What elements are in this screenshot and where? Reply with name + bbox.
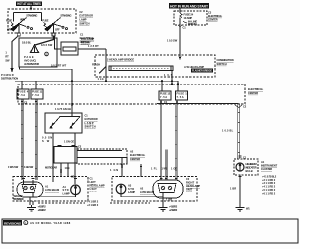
svg-text:HOT IN RUN AND START: HOT IN RUN AND START	[170, 4, 208, 8]
wire from switch to splice	[22, 37, 54, 46]
ground G3 cluster	[236, 205, 251, 211]
connector under fuse box	[179, 25, 187, 29]
svg-text:HOT AT ALL TIMES: HOT AT ALL TIMES	[17, 2, 41, 6]
wire linkage drop C	[140, 164, 142, 177]
svg-text:SWITCH: SWITCH	[79, 21, 89, 25]
svg-text:1/0.5 BL: 1/0.5 BL	[22, 41, 32, 45]
left standing bulb	[71, 175, 81, 195]
fuse F-a in switch	[6, 19, 14, 28]
dimmer switch label	[85, 114, 98, 129]
svg-text:LAMP: LAMP	[128, 190, 135, 194]
left ground hinge label	[14, 194, 24, 201]
wire to instrument cluster	[222, 103, 247, 159]
svg-text:POWER: POWER	[1, 73, 14, 77]
svg-text:1 GE: 1 GE	[171, 167, 177, 171]
svg-text:1 0.75 GN GE: 1 0.75 GN GE	[55, 107, 71, 111]
electrical center dashed housing	[18, 84, 245, 104]
connector C3 fuse panel label	[208, 10, 223, 21]
fuse F11	[31, 81, 43, 99]
svg-text:HEADLAMP: HEADLAMP	[186, 184, 200, 188]
wire aim out 1 GE	[65, 163, 70, 177]
svg-text:EXTERIOR: EXTERIOR	[79, 14, 93, 18]
ground G1 left	[27, 205, 46, 212]
svg-text:+4 1 BR 2: +4 1 BR 2	[87, 200, 99, 204]
svg-text:LEFT: LEFT	[90, 180, 97, 184]
label headlamp flasher text block	[184, 65, 213, 72]
ground G2 right	[159, 205, 178, 212]
power feed plate HOT AT ALL TIMES	[16, 2, 42, 7]
wire dimmer high beam out	[64, 133, 75, 184]
svg-text:FRONT GND: FRONT GND	[14, 197, 24, 201]
ground dashed link left	[38, 200, 99, 207]
svg-text:CENTER: CENTER	[248, 91, 258, 95]
hot in run plate	[169, 3, 209, 8]
svg-text:E: E	[46, 52, 48, 56]
svg-text:7.5A: 7.5A	[32, 93, 39, 97]
left standing lamp label	[63, 185, 70, 196]
svg-text:RIGHT: RIGHT	[186, 180, 195, 184]
svg-text:RT: RT	[5, 55, 9, 59]
wire 1/0.5 RT WT to junction	[20, 63, 73, 81]
svg-text:OFF: OFF	[7, 27, 12, 31]
right headlamp dashed housing	[112, 177, 197, 202]
svg-text:1 WS SW: 1 WS SW	[8, 165, 19, 169]
svg-text:ELECTRICAL: ELECTRICAL	[248, 87, 264, 91]
right headlamp housing bulb	[153, 179, 183, 199]
exterior lamp switch S1 dashed housing	[8, 9, 76, 33]
switch internal bus wire	[14, 13, 42, 22]
wire fuse4 to left headlamp	[8, 99, 23, 180]
svg-text:FLASH: FLASH	[92, 63, 100, 67]
svg-text:SWITCH: SWITCH	[85, 124, 96, 128]
svg-text:1 GE: 1 GE	[65, 166, 70, 170]
svg-text:SW: SW	[42, 139, 50, 143]
svg-text:W2 LEFT: W2 LEFT	[14, 194, 24, 198]
wire aim out left	[60, 163, 62, 177]
svg-text:1 GE SW: 1 GE SW	[24, 165, 34, 169]
wire fuse12 to right headlamp	[151, 103, 161, 180]
svg-text:+2 1 1 RD 2: +2 1 1 RD 2	[262, 178, 276, 182]
left low beam label	[45, 184, 59, 192]
wire fuse1 to right headlamp	[171, 103, 177, 180]
flash switch lever	[92, 63, 107, 74]
wire bridge right end down	[164, 71, 173, 86]
svg-text:FUSE 12: FUSE 12	[160, 92, 171, 96]
wire dimmer low beam out	[42, 133, 53, 182]
svg-text:ALTERNATOR: ALTERNATOR	[24, 62, 39, 66]
label STANDING (left wafer)	[7, 13, 37, 31]
svg-text:CENTER: CENTER	[130, 157, 140, 161]
svg-text:1 0.5 SW: 1 0.5 SW	[167, 39, 178, 43]
combination switch label	[217, 58, 234, 66]
svg-text:CENTER: CENTER	[208, 17, 218, 21]
svg-text:1/0.5 RT WT: 1/0.5 RT WT	[51, 63, 67, 67]
svg-text:FUSE 1: FUSE 1	[177, 92, 188, 96]
svg-text:+2 1 BR 2: +2 1 BR 2	[87, 203, 99, 207]
fuse F24 10A	[180, 13, 197, 27]
svg-text:1 GN: 1 GN	[110, 168, 118, 172]
svg-text:1 0.5: 1 0.5	[164, 73, 173, 77]
svg-text:REVISIONS: REVISIONS	[4, 221, 21, 225]
left headlamp ground link wire	[30, 193, 76, 206]
svg-text:COMBINATION: COMBINATION	[217, 58, 234, 62]
svg-text:RELAY: RELAY	[81, 41, 91, 45]
revisions bar	[2, 219, 298, 243]
svg-text:+6 1 1 RD 2: +6 1 1 RD 2	[262, 191, 276, 195]
switch wafer 2 wiper	[44, 18, 68, 34]
right standing lamp label	[128, 183, 135, 194]
electrical center bottom bus wire	[157, 102, 239, 104]
svg-text:SW: SW	[5, 59, 10, 63]
svg-text:1 FL: 1 FL	[151, 167, 158, 171]
svg-text:7.5A: 7.5A	[18, 93, 25, 97]
svg-text:7.5A: 7.5A	[160, 95, 167, 99]
svg-text:STD: STD	[128, 187, 134, 191]
wire to right headlamp mid	[162, 150, 168, 181]
wire branch to relay K1	[41, 37, 61, 50]
electrical center label	[248, 87, 264, 95]
left headlamp housing bulb	[17, 179, 43, 198]
svg-text:AS OF MODEL YEAR 1988: AS OF MODEL YEAR 1988	[30, 221, 71, 225]
wire to power distribution arrow	[5, 37, 17, 74]
connector exit C at switch bottom right	[52, 33, 55, 36]
wire to dimmer switch	[55, 81, 73, 113]
combination switch dashed housing	[95, 55, 215, 77]
svg-text:1 WS: 1 WS	[162, 167, 168, 171]
svg-text:FUSE 4: FUSE 4	[18, 90, 29, 94]
connector row under left fuses	[21, 100, 37, 104]
fuse box dashed housing (top right)	[174, 8, 207, 25]
svg-text:BULB: BULB	[246, 169, 253, 173]
svg-text:1 LG: 1 LG	[98, 77, 104, 81]
svg-text:1 2.5 RT: 1 2.5 RT	[88, 44, 99, 48]
label STANDING (right wafer)	[55, 13, 72, 31]
wire 1 0.5 SW down to combination switch	[167, 29, 181, 60]
svg-text:ELECTRICAL: ELECTRICAL	[208, 14, 223, 18]
label headlamp flasher bridge	[107, 58, 134, 62]
svg-text:+3 1 1 RD 2: +3 1 1 RD 2	[262, 181, 276, 185]
svg-text:2 HEADLAMP BRIDGE: 2 HEADLAMP BRIDGE	[107, 58, 134, 62]
wire 1 2.5 RT to combination switch	[78, 44, 106, 49]
splice group box	[19, 38, 57, 67]
svg-text:AVO (A/C): AVO (A/C)	[24, 58, 36, 62]
svg-text:+4 1 0.75 BL2: +4 1 0.75 BL2	[262, 174, 277, 178]
svg-text:0.5 GN: 0.5 GN	[42, 136, 52, 140]
aim linkage label	[130, 150, 146, 161]
instrument cluster label	[261, 160, 278, 171]
fuse F4	[17, 81, 29, 99]
wire linkage to right headlamp	[110, 158, 123, 178]
svg-text:LAMP: LAMP	[85, 121, 94, 125]
svg-text:FUSE 11: FUSE 11	[32, 90, 43, 94]
svg-text:1 BR: 1 BR	[166, 198, 172, 202]
wire through combination switch node	[98, 49, 108, 82]
svg-text:+5 1 1 RD 2: +5 1 1 RD 2	[262, 188, 276, 192]
svg-text:HEADLAMP: HEADLAMP	[90, 184, 105, 188]
right headlamp unit label	[186, 177, 200, 192]
svg-text:INSTRUMENT: INSTRUMENT	[261, 163, 278, 167]
svg-text:+2 1 BR 2: +2 1 BR 2	[38, 208, 47, 212]
connector C2 exterior lamp switch label	[79, 10, 93, 25]
svg-text:OFF: OFF	[55, 27, 60, 31]
svg-text:1 GN GE: 1 GN GE	[64, 140, 74, 144]
ground dashed link mid	[110, 202, 150, 204]
svg-text:STD: STD	[63, 188, 69, 192]
svg-text:LOW BEAM: LOW BEAM	[45, 188, 59, 192]
svg-text:STANDING: STANDING	[26, 13, 37, 17]
svg-text:MOT/GEAR: MOT/GEAR	[45, 165, 57, 169]
svg-text:+2 1 BR 2: +2 1 BR 2	[169, 208, 178, 212]
fuse F1	[176, 81, 188, 100]
wire fuse11 to left headlamp	[24, 99, 37, 180]
svg-text:+4 1 1 RD 2: +4 1 1 RD 2	[262, 185, 276, 189]
svg-text:HIGH BEAM: HIGH BEAM	[246, 162, 257, 166]
svg-text:1 0.5 BL: 1 0.5 BL	[222, 128, 234, 132]
bridge bar in combination switch	[109, 66, 173, 71]
svg-text:10 AMP: 10 AMP	[184, 16, 193, 20]
svg-text:FOG LAMP: FOG LAMP	[81, 37, 94, 41]
svg-text:LOW BEAM: LOW BEAM	[140, 190, 154, 194]
wiring code legend	[262, 174, 277, 195]
svg-text:7.5A: 7.5A	[177, 95, 184, 99]
instrument cluster dashed housing	[234, 159, 258, 175]
svg-text:INDICATOR: INDICATOR	[246, 166, 257, 170]
splice triangle to alternator	[24, 45, 48, 66]
right headlamp ground link wire	[121, 193, 163, 206]
relay K1 box	[60, 37, 94, 55]
label POWER DISTRIBUTION	[1, 73, 18, 81]
svg-text:LAMP: LAMP	[63, 192, 70, 196]
svg-text:FLASHER BRIDGE: FLASHER BRIDGE	[192, 69, 212, 73]
svg-text:FUSE: FUSE	[6, 19, 12, 23]
svg-text:HEAD: HEAD	[20, 18, 25, 22]
switch wafer 1 wiper	[10, 18, 33, 34]
left headlamp unit label	[90, 176, 105, 191]
svg-text:PAGE: PAGE	[24, 55, 34, 59]
high beam indicator bulb	[236, 162, 257, 173]
svg-text:FUSE: FUSE	[42, 19, 48, 23]
svg-text:SWITCH: SWITCH	[217, 62, 227, 66]
fuse F12	[159, 81, 171, 100]
dimmer switch box	[45, 113, 82, 133]
svg-text:CLUSTER: CLUSTER	[261, 167, 272, 171]
fuse F-b in switch	[42, 19, 48, 28]
cluster ground wire	[230, 175, 241, 205]
connector row under right fuses	[160, 100, 178, 104]
right low beam label	[140, 186, 154, 194]
svg-text:UNIT: UNIT	[186, 188, 193, 192]
svg-text:STANDING: STANDING	[60, 13, 71, 17]
connector exit C at switch bottom left	[17, 33, 20, 36]
svg-text:1/0.5 SW: 1/0.5 SW	[41, 43, 53, 47]
svg-text:MODULE: MODULE	[188, 22, 197, 26]
svg-text:EXTERIOR: EXTERIOR	[85, 117, 98, 121]
right ground label	[166, 198, 172, 202]
aim linkage dashed box	[77, 149, 127, 164]
svg-text:1 BR: 1 BR	[230, 187, 236, 191]
svg-text:UNIT: UNIT	[90, 187, 98, 191]
svg-text:ELECTRICAL: ELECTRICAL	[130, 153, 146, 157]
bus wire B+	[15, 80, 178, 82]
svg-text:DISTRIBUTION: DISTRIBUTION	[1, 77, 18, 81]
right standing bulb	[116, 184, 126, 194]
aim control module box	[54, 145, 82, 163]
connector C1 electrical center label	[80, 32, 95, 44]
svg-text:LAMP: LAMP	[79, 18, 86, 22]
wire feed into switch S1	[30, 6, 32, 11]
aim control label	[45, 165, 57, 169]
left headlamp dashed housing	[13, 177, 88, 202]
